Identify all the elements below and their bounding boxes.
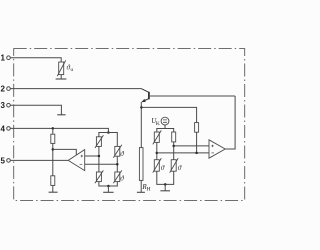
node bridge2 bottom xyxy=(164,183,167,186)
op-amp U1 (output to left) xyxy=(68,150,85,171)
opamp2 minus mark xyxy=(211,152,214,154)
opamp1 minus mark xyxy=(80,163,83,165)
resistor R_H xyxy=(139,148,143,181)
wire pin5 to opamp1 output xyxy=(10,159,68,161)
node bridge left tap xyxy=(98,155,101,158)
thermistor th_u xyxy=(57,60,65,76)
svg-text:u: u xyxy=(70,67,73,73)
wire pin2 to transistor collector xyxy=(10,88,141,90)
resistor bridge2 upper-right xyxy=(172,132,176,142)
wire xyxy=(156,142,158,159)
resistor divider upper xyxy=(51,134,55,143)
wire emitter down xyxy=(140,102,142,148)
wire bridge2 to ground xyxy=(164,184,166,190)
wire xyxy=(98,146,100,172)
wire pin3 stub xyxy=(10,105,61,115)
node bridge2 left tap xyxy=(156,152,159,155)
wire bridge bottom xyxy=(99,182,117,186)
svg-text:ϑ: ϑ xyxy=(161,164,165,172)
node supply tap xyxy=(52,148,55,151)
wire bridge2 top xyxy=(157,129,174,133)
wire line B tap to opamp2 xyxy=(157,152,209,154)
wire line A tap to opamp2 xyxy=(174,145,209,147)
dashed enclosure border xyxy=(14,49,245,201)
wire rail middle xyxy=(52,143,54,175)
node resistor line B xyxy=(195,152,198,155)
svg-text:1: 1 xyxy=(1,54,6,63)
svg-text:4: 4 xyxy=(1,124,6,133)
wire thermistor to chassis xyxy=(60,75,62,79)
node bridge2 right tap xyxy=(172,145,175,148)
pin 2 terminal xyxy=(7,87,11,91)
resistor divider lower xyxy=(51,176,55,186)
wire bridge2 bottom xyxy=(157,171,174,184)
pin 5 terminal xyxy=(7,159,11,163)
node supply rail top xyxy=(52,127,55,130)
wire xyxy=(173,142,175,160)
thermistor bridge2 upper-left xyxy=(153,130,162,144)
svg-text:5: 5 xyxy=(1,156,6,165)
wire supply to opamp1 xyxy=(53,149,77,154)
wire pin4 rail xyxy=(10,128,108,132)
wire bridge to ground xyxy=(107,186,109,192)
svg-text:ϑ: ϑ xyxy=(178,164,182,172)
svg-text:ϑ: ϑ xyxy=(120,175,124,183)
ground bar bridge2 xyxy=(160,190,170,192)
transistor Q1 xyxy=(141,89,149,103)
resistor middle column xyxy=(195,123,199,133)
wire pin1 to thermistor xyxy=(10,58,61,62)
opamp2 plus mark xyxy=(211,145,213,147)
wire feedback from opamp2 xyxy=(225,96,235,149)
thermistor bridge lower-left xyxy=(95,170,104,183)
pin 3 terminal xyxy=(7,103,11,107)
chassis bar under pin3 xyxy=(57,114,65,116)
left bridge top node xyxy=(107,131,110,134)
wire rail to ground xyxy=(52,185,54,192)
svg-text:K: K xyxy=(156,121,160,127)
op-amp U2 (output to right) xyxy=(209,140,225,158)
wire opamp1 +input xyxy=(85,155,99,157)
wire bridge top xyxy=(99,133,117,147)
wire opamp1 -input xyxy=(85,163,118,165)
pin 1 terminal xyxy=(7,56,11,60)
wire rail upper xyxy=(52,128,54,134)
svg-text:ϑ: ϑ xyxy=(120,150,124,158)
thermistor bridge2 lower-right xyxy=(170,158,179,173)
wire base xyxy=(150,95,235,97)
pin 4 terminal xyxy=(7,127,11,131)
svg-text:H: H xyxy=(147,187,151,193)
ground bar rail xyxy=(49,191,58,193)
opamp1 plus mark xyxy=(81,155,83,157)
chassis bar under th_u xyxy=(56,78,67,80)
wire resistor to line B xyxy=(196,132,198,153)
ground bar R_H xyxy=(137,191,145,193)
wire emitter to resistor column xyxy=(141,107,196,122)
svg-text:2: 2 xyxy=(1,85,6,94)
svg-text:3: 3 xyxy=(1,101,6,110)
voltage source U_K xyxy=(161,117,169,125)
thermistor bridge upper-left xyxy=(95,135,104,148)
thermistor bridge lower-right xyxy=(113,170,122,183)
wire R_H to ground xyxy=(140,180,142,192)
thermistor bridge2 lower-left xyxy=(153,158,162,173)
node bridge right tap xyxy=(116,163,119,166)
node emitter xyxy=(140,106,143,109)
wire U_K to bridge2 top xyxy=(164,125,166,129)
thermistor bridge upper-right xyxy=(113,145,122,158)
ground bar bridge xyxy=(103,191,113,193)
wire xyxy=(116,156,118,172)
node bridge bottom xyxy=(107,185,110,188)
